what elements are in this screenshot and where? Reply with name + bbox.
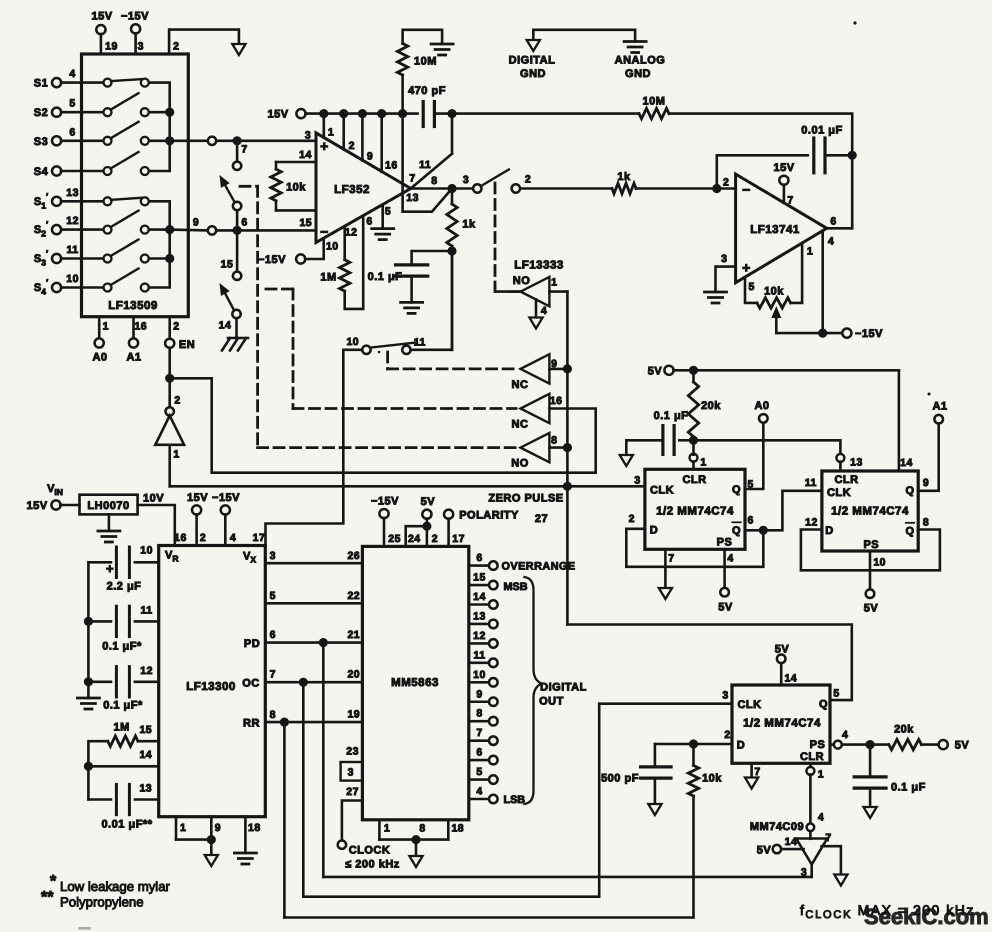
wire OC pin7 to pin20 [242,669,362,690]
ground digital arrow at pin 2 [232,44,245,55]
svg-text:2: 2 [724,729,730,741]
flip-flop 1/2 MM74C74 first [629,469,754,564]
node ZERO PULSE label [488,493,563,526]
svg-text:A1: A1 [932,401,947,413]
gate MM74C09 pin4 circle [750,821,814,833]
svg-text:9: 9 [193,217,199,229]
wire pin2 drop [344,114,355,152]
svg-text:15V: 15V [267,109,288,121]
svg-text:5V: 5V [648,366,663,378]
svg-text:LF13333: LF13333 [514,260,564,272]
15V supply terminal pin 19 [91,11,117,55]
svg-text:14: 14 [219,320,232,332]
svg-text:VIN: VIN [47,483,63,497]
svg-text:LF13741: LF13741 [750,224,800,236]
svg-text:2: 2 [174,395,180,407]
svg-text:9: 9 [923,477,929,489]
wire CLR pin 1 down [806,763,814,823]
potentiometer 10k offset trim [745,244,802,309]
svg-text:NC: NC [512,379,529,391]
input terminal S3p row [34,244,108,268]
svg-text:15: 15 [299,217,312,229]
svg-text:S2′: S2′ [34,220,48,239]
svg-text:10k: 10k [286,182,306,194]
ADC MM5863 body [362,546,468,819]
switch 10-11 [346,336,425,354]
wire RR to 10k bottom [284,722,692,917]
svg-text:5V: 5V [718,602,733,614]
wire switch10 to LF13300 pin17 [266,350,363,546]
wire pin 11 diagonal [411,154,452,189]
svg-text:VR: VR [165,550,178,564]
svg-text:Q: Q [905,526,914,538]
svg-text:8: 8 [419,823,425,835]
svg-text:1k: 1k [462,219,476,231]
svg-text:A0: A0 [754,400,769,412]
clear circle pin 1 FF1 [690,440,707,469]
wire Q to A0 [745,423,763,489]
wire output bus upper S1-S4 [149,83,174,171]
svg-text:CLOCK: CLOCK [349,845,391,857]
15V terminal LF13300 pin 2 [187,492,208,546]
svg-text:20: 20 [347,669,360,681]
svg-text:DIGITAL: DIGITAL [509,55,556,67]
svg-text:A0: A0 [92,352,107,364]
wire pin 2 to ground arrow [169,30,239,54]
input terminal S2p row [34,215,108,239]
wire MM5863 pins 1 8 ground [379,820,464,858]
svg-text:16: 16 [385,159,398,171]
svg-text:6: 6 [366,216,372,228]
svg-text:11: 11 [67,244,79,256]
svg-text:2: 2 [629,513,635,525]
svg-text:CLK: CLK [827,487,851,499]
wire pin 13 pocket [403,114,452,212]
svg-text:4: 4 [230,532,236,544]
op-amp LF352 [299,129,437,252]
svg-text:Polypropylene: Polypropylene [60,895,144,910]
node CLOCK label [345,845,400,871]
svg-text:CLR: CLR [834,474,858,486]
svg-text:Q: Q [819,699,828,711]
input terminal S4 row [34,166,108,178]
svg-text:1: 1 [103,321,109,333]
svg-text:3: 3 [721,253,727,265]
svg-text:−: − [742,182,751,198]
resistor 1M at pin 15 [84,722,159,800]
switch amp LF13333 NC pin16 [512,394,596,473]
svg-text:0.01 μF: 0.01 μF [801,125,842,137]
ground arrow MM5863 bottom [409,856,422,867]
svg-text:11: 11 [141,605,153,617]
svg-text:9: 9 [215,822,221,834]
svg-text:2: 2 [349,140,355,152]
svg-text:1M: 1M [113,722,129,734]
svg-text:4: 4 [476,786,482,798]
5V terminal FF1 pin 4 [718,549,733,613]
svg-text:16: 16 [550,395,563,407]
svg-text:+: + [742,260,751,276]
15V terminal LF13741 pin 7 [773,162,794,203]
svg-text:19: 19 [105,41,118,53]
svg-text:8: 8 [431,175,437,187]
svg-text:13: 13 [66,187,79,199]
digital output terminals MM5863 [469,552,576,806]
svg-text:LH0070: LH0070 [87,500,129,512]
svg-text:−: − [320,224,329,240]
svg-text:4: 4 [69,68,75,80]
ground digital arrow [509,40,556,80]
wire pin1 drop [324,114,334,139]
svg-text:14: 14 [900,457,913,469]
svg-text:14: 14 [299,149,312,161]
capacitor 0.01uF at pin 13 [88,783,158,831]
wire EN node [165,348,596,473]
wire pin 27 to clock terminal [338,786,363,849]
svg-text:RR: RR [243,718,260,730]
svg-text:0.1 μF: 0.1 μF [891,782,926,794]
svg-text:2: 2 [173,41,179,53]
ground analog bars top [431,44,453,55]
svg-text:0.1 μF*: 0.1 μF* [103,700,143,712]
ground arrow below 0.1uF right [864,807,877,818]
svg-text:21: 21 [347,629,360,641]
-15V terminal MM5863 pin25 [371,496,401,547]
op-amp LF13741 [721,174,837,293]
svg-text:10: 10 [473,669,486,681]
svg-text:15: 15 [221,259,234,271]
svg-text:10k: 10k [702,773,722,785]
svg-text:15V: 15V [187,492,208,504]
svg-text:13: 13 [406,192,419,204]
5V terminal MM74C09 pin 14 [757,845,804,857]
svg-text:D: D [825,525,833,537]
svg-text:3: 3 [348,767,354,779]
clear circle pin 13 FF2 [836,454,862,471]
svg-text:1: 1 [180,822,186,834]
svg-text:MM74C09: MM74C09 [750,821,804,833]
svg-text:7: 7 [270,669,276,681]
wire D loop FF2 [801,530,940,571]
svg-text:4: 4 [818,812,824,824]
svg-text:1: 1 [173,449,179,461]
ground arrow MM74C09 pin7 [834,875,847,886]
terminal A0 pin 1 [92,317,109,364]
wire gate output to PD line [323,643,811,877]
svg-text:5V: 5V [955,740,970,752]
svg-text:2: 2 [200,532,206,544]
pin 23 box with 3 [341,746,363,781]
svg-text:9: 9 [367,151,373,163]
dashed control line switch14 to NC16 [266,289,516,409]
svg-text:PS: PS [717,537,733,549]
svg-text:NC: NC [512,419,529,431]
svg-text:6: 6 [476,747,482,759]
svg-text:15V: 15V [26,500,47,512]
ground arrow FF3 pin 7 [745,763,758,788]
5V terminal and 20k pullup [648,366,899,445]
input terminal S3 row [34,126,108,148]
dashed control line switch3 to NO1 [495,183,521,292]
svg-text:7: 7 [787,195,793,207]
switch contact S4 inside LF13509 [104,152,149,175]
switch S7 blade with arrow [220,175,242,210]
resistor 10M vertical to ground [397,30,442,114]
svg-text:S1′: S1′ [34,191,48,210]
svg-text:6: 6 [241,217,247,229]
svg-text:MM5863: MM5863 [391,677,439,689]
svg-text:NO: NO [511,458,529,470]
switch S6 pivot stub [236,210,239,227]
15V terminal for LF352 bus [267,109,417,121]
svg-text:24: 24 [408,533,421,545]
svg-text:DIGITAL: DIGITAL [540,682,587,694]
resistor 10M top feedback [452,96,852,229]
svg-text:S3′: S3′ [34,249,48,268]
-15V terminal LF13300 pin 4 [212,492,240,546]
wire 1k node to switch 11 [451,251,454,350]
svg-text:1: 1 [807,246,813,258]
ground below LH0070 [98,514,120,542]
svg-text:5V: 5V [421,496,436,508]
wire OC to FF3 clock [303,682,732,897]
5V terminal right of 20k [939,740,970,752]
capacitor 2.2uF at pin 10 [88,545,158,618]
ground arrow at LF13333 pin4 [529,300,547,329]
svg-text:*: * [50,873,57,890]
svg-text:18: 18 [451,823,464,835]
input terminal S1 row [34,68,108,90]
svg-text:CLR: CLR [682,474,706,486]
svg-text:3: 3 [722,690,728,702]
svg-text:S1: S1 [34,78,48,90]
svg-text:7: 7 [754,766,760,778]
svg-text:5: 5 [833,688,839,700]
note fclock max [800,902,975,921]
svg-text:−15V: −15V [121,11,149,23]
svg-text:14: 14 [473,591,486,603]
terminal A0 [754,400,769,423]
svg-text:10: 10 [140,545,153,557]
capacitor 0.1uF at pin 12 [84,621,159,711]
terminal A1 pin 16 [126,317,147,364]
buffer amplifier at EN [155,378,184,460]
5V terminal FF2 pin 10 [864,551,879,615]
svg-text:CLK: CLK [737,699,761,711]
dashed control line switch10 to NC9 [388,352,516,369]
svg-text:10M: 10M [414,56,437,68]
svg-text:15V: 15V [773,162,794,174]
svg-text:−15V: −15V [258,254,286,266]
svg-text:11: 11 [805,477,817,489]
ground below 0.1uF [401,302,423,313]
svg-text:10: 10 [873,557,886,569]
svg-text:8: 8 [476,708,482,720]
wire LF352 output [411,184,473,193]
svg-text:1k: 1k [617,171,631,183]
svg-text:1M: 1M [320,272,336,284]
input terminal S1p row [34,187,108,211]
svg-text:10: 10 [66,273,79,285]
terminal A1 [932,401,947,424]
svg-text:Q: Q [732,484,741,496]
wire pin 14 [88,749,158,766]
svg-text:Q: Q [905,485,914,497]
svg-text:LSB: LSB [504,794,526,806]
wire pin16 drop [382,114,398,172]
svg-text:3: 3 [305,129,311,141]
voltage reference LH0070 [47,483,138,514]
capacitor 470 pF in feedback [408,85,446,127]
svg-text:LF13300: LF13300 [186,681,236,693]
svg-text:27: 27 [346,786,359,798]
svg-text:4: 4 [842,729,848,741]
svg-text:SeekIC.com: SeekIC.com [864,904,989,929]
wire Vx pin3 to pin26 [265,550,362,563]
svg-text:12: 12 [345,227,358,239]
svg-text:POLARITY: POLARITY [459,510,519,522]
5V terminal FF3 pin 14 [775,644,790,686]
svg-text:5: 5 [749,281,755,293]
svg-text:S2: S2 [34,107,48,119]
switch contact S1 inside LF13509 [104,79,149,87]
svg-text:2: 2 [525,174,531,186]
switch amp LF13333 NC pin9 [512,354,572,391]
svg-text:6: 6 [748,515,754,527]
capacitor 500 pF [601,744,671,806]
svg-text:4: 4 [828,236,834,248]
resistor 1k input of LF13741 [612,171,736,194]
svg-text:PS: PS [863,539,879,551]
wire S3 output row pin 7 node [170,136,316,155]
svg-text:5: 5 [270,590,276,602]
svg-text:VX: VX [243,551,256,565]
svg-text:10: 10 [326,241,339,253]
wire zero pulse line [170,445,645,487]
svg-text:13: 13 [850,457,863,469]
ground bars LF13300 pin 18 [234,817,260,864]
svg-text:5: 5 [385,206,391,218]
svg-text:5: 5 [476,766,482,778]
svg-text:Low leakage mylar: Low leakage mylar [60,879,171,894]
svg-text:11: 11 [419,159,431,171]
svg-text:13: 13 [473,610,486,622]
svg-text:1: 1 [700,457,706,469]
svg-text:10M: 10M [643,96,666,108]
svg-text:2: 2 [723,177,729,189]
supply bus dots [319,109,407,118]
svg-text:10k: 10k [764,286,784,298]
svg-text:15: 15 [139,724,152,736]
wire digital-analog ground tie [533,30,635,42]
svg-text:S3: S3 [34,136,48,148]
svg-text:D: D [737,740,745,752]
svg-text:8: 8 [551,434,557,446]
svg-text:−15V: −15V [371,496,399,508]
switch amp LF13333 NO pin8 [511,433,572,470]
switch contact S1p inside LF13509 [104,197,149,205]
5V terminal MM5863 pins 24 2 [406,496,438,546]
switch contact 2 [512,174,612,193]
svg-text:OUT: OUT [539,696,564,708]
switch contact S2p inside LF13509 [104,211,149,234]
resistor 1k below output [447,189,476,256]
svg-text:0.1 μF: 0.1 μF [654,410,689,422]
brace DIGITAL OUT [525,577,587,804]
svg-text:12: 12 [66,215,79,227]
svg-text:1/2 MM74C74: 1/2 MM74C74 [831,506,909,518]
input terminal S4p row [34,273,108,297]
wiper arrow of 10k pot [771,306,781,333]
svg-text:5: 5 [69,98,75,110]
svg-text:27: 27 [535,513,548,525]
POLARITY terminal MM5863 pin17 [444,510,519,547]
multiplexer LF13509 body [82,54,189,317]
wire Qbar to FF2 clock [745,477,822,535]
svg-text:0.1 μF*: 0.1 μF* [102,641,142,653]
svg-text:2.2 μF: 2.2 μF [107,581,142,593]
wire switch11 to 1k node [411,255,452,350]
svg-text:470 pF: 470 pF [408,85,446,97]
switch contact 3 [463,169,509,192]
capacitor 0.1uF at 1k bottom [368,251,452,302]
svg-text:23: 23 [346,746,359,758]
svg-text:LF13509: LF13509 [108,300,158,312]
svg-text:6: 6 [830,216,836,228]
switch S7 contact [233,145,241,171]
wire Q to A1 [918,424,939,491]
svg-text:15: 15 [473,572,486,584]
svg-text:CLK: CLK [650,485,674,497]
ground arrow LF13300 bottom [205,855,218,866]
svg-text:17: 17 [253,532,266,544]
svg-text:1: 1 [384,823,390,835]
svg-text:1: 1 [328,127,334,139]
wire PD pin6 to pin21 [244,629,363,650]
svg-text:10: 10 [346,336,359,348]
svg-text:1/2 MM74C74: 1/2 MM74C74 [656,506,734,518]
svg-text:≤ 200 kHz: ≤ 200 kHz [345,859,400,871]
wire LF13300 pins 1 9 to ground arrow [176,817,221,857]
wire pin 4 to -15V [776,232,842,338]
svg-text:LF352: LF352 [334,184,370,196]
watermark [864,904,989,929]
switch contact S3p inside LF13509 [104,240,149,263]
wire LF13741 output [827,227,852,230]
switch amp LF13333 NO pin1 [510,260,568,307]
svg-text:1: 1 [551,277,557,289]
wire RR pin8 to pin19 [243,709,362,730]
svg-text:+: + [320,138,329,154]
svg-text:S4′: S4′ [34,278,48,297]
svg-text:S4: S4 [34,166,49,178]
svg-text:**: ** [41,889,54,906]
svg-text:2: 2 [173,321,179,333]
svg-text:14: 14 [139,749,152,761]
switch S15 contact [221,234,242,280]
capacitor 0.1uF at FF3 PS [854,745,926,809]
svg-text:10V: 10V [143,493,164,505]
svg-text:A1: A1 [126,352,141,364]
svg-text:19: 19 [347,709,360,721]
svg-text:3: 3 [463,174,469,186]
svg-text:13: 13 [139,783,152,795]
svg-text:22: 22 [347,590,360,602]
svg-text:0.1 μF: 0.1 μF [368,271,403,283]
svg-text:18: 18 [248,822,261,834]
wire D node FF3 [655,739,732,748]
svg-text:6: 6 [270,629,276,641]
